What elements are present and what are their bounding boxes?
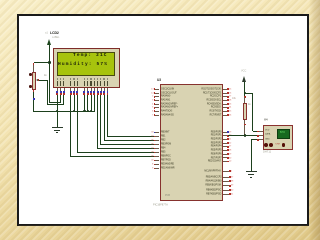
junction RW [73,110,75,112]
wire VCC down [243,82,246,97]
terminal LCD2 (input arrow) [47,39,51,45]
DHT11 sensor U4 body [263,125,293,150]
wire D0 to ground bus [83,95,86,111]
wire D5 vertical [99,95,102,145]
wire pot top stub [32,63,35,65]
LCD display LCD1 (LM016L) body [53,48,120,89]
wire to LCD VDD [49,101,61,104]
U3 pin 36 RB3/PGM [155,143,159,146]
wire up to LCD VDD pin [59,95,62,103]
LCD screen [57,52,115,76]
LCD1 pin VDD [60,78,61,79]
wire VCC to DHT VDD (h) [245,92,253,95]
junction VSS/ground bus [56,110,58,112]
U3 inner bottom label [165,195,170,197]
wire VCC to DHT VDD (v) [251,93,254,131]
wire LCD2 terminal down [48,45,51,63]
U3 pin 21 RD2/PSP2 [223,138,227,141]
wire wiper to VEE [47,103,64,106]
R1 bottom lead [243,120,246,136]
DHT11 pin VDD [259,130,263,133]
wire RW to ground bus [73,95,76,111]
wire D4 to U3 [97,147,154,150]
wire D1 to ground bus [86,95,89,111]
wire DATA U3 to DHT11 [228,134,257,137]
DHT11 reference U4 [264,119,268,122]
wire D6 vertical [103,95,106,141]
pot value 1k [44,75,47,77]
wire D3 to ground bus [93,95,96,111]
U3 pin 3 RA1/AN1 [155,99,159,102]
U3 pin 38 RB4/AN11/KBI0 [223,180,230,183]
LCD1 pin RS [70,78,71,79]
U3 pin 27 RD4/PSP4 [223,145,227,148]
ground bus wire [33,110,95,113]
U3 pin 25 RC6/TX/CK [223,110,227,113]
wire D5 to U3 [100,143,154,146]
wire D2 to ground bus [90,95,93,111]
pot wiper pin [38,79,40,81]
junction D0 [83,110,85,112]
wire D4 vertical [96,95,99,149]
junction R1/DATA [244,134,246,136]
microcontroller U3 body [160,84,223,202]
U3 pin 29 RD6/PSP6 [223,153,227,156]
U3 pin 8 RE0/AN5/RD [155,163,159,166]
pot RV1 up arrow button [29,73,32,76]
wire D7 to U3 [107,135,155,138]
ground (LCD VSS) [52,127,63,128]
wire E to U3 [77,151,155,154]
U3 pin 4 RA2/AN2/VREF- [155,103,159,106]
U3 pin 37 RB4 [155,147,159,150]
junction VCC/R1 [244,92,246,94]
U3 pin 2 RA0/AN0 [155,95,159,98]
wire wiper [38,79,47,82]
U3 pin 22 RD3/PSP3 [223,142,227,145]
U3 pin 24 RC5/SDO [223,106,227,109]
LCD1 pin E [77,78,78,79]
power label VCC [241,70,246,73]
U3 pin 10 RE2/CS/AN7 [223,160,227,163]
DHT11 part value [263,151,271,154]
U3 pin 35 RB2 [155,139,159,142]
LCD1 pin VSS [57,78,58,79]
U3 pin 13 OSC1/CLKIN [155,88,159,91]
pot RV1 bottom pin [33,90,35,92]
U3 pin 15 RC0/T1OSO/T1CKI [223,88,227,91]
junction D2 [90,110,92,112]
LCD1 pin D3 [94,78,95,79]
pot RV1 down arrow button [29,85,32,88]
DHT11 button adjust [282,143,285,146]
wire LCD2 vertical to VDD route [48,63,51,103]
wire to DHT VDD pin [253,130,258,133]
U3 pin 23 RC4/SDI/SDA [223,103,227,106]
junction LCD2/pot [48,61,50,63]
MCU reference U3 [157,79,161,82]
power terminal VCC [242,76,246,82]
LCD1 pin D0 [84,78,85,79]
DHT11 button minus [264,143,268,147]
U3 pin 28 RD5/PSP5 [223,149,227,152]
wire GND down [250,140,253,172]
DHT11 pin GND [259,138,263,141]
DHT11 pin DATA [259,134,263,137]
LCD1 pin D6 [103,78,104,79]
U3 pin 38 RB5 [155,151,159,154]
U3 part value [153,204,168,207]
DHT11 pin label DATA [265,133,270,135]
DHT11 reading [280,132,285,134]
U3 pin 6 RA4/T0CKI [155,110,159,113]
wire VSS to ground [56,95,59,127]
junction D1 [87,110,89,112]
R1 ref text [248,104,251,106]
LCD1 pin D1 [87,78,88,79]
DHT11 small text [275,143,280,145]
terminal sublabel [52,37,59,39]
U3 pin 26 RC7/RX/DT [223,114,227,117]
LCD1 pin D7 [107,78,108,79]
U3 pin 16 RC1/T1OSI/CCP2 [223,92,227,95]
U3 pin 14 OSC2/CLKOUT [155,92,159,95]
DHT11 screen [277,129,291,139]
wire up to LCD VEE pin [62,95,65,105]
resistor R1 value [232,98,236,100]
wire pot bottom to ground bus [32,90,35,111]
wire to pot top [34,61,50,64]
U3 pin 34 RB1 [155,135,159,138]
U3 pin 19 RD0/PSP0 [223,131,227,134]
pot top lead [32,65,35,71]
pot RV1 top pin [33,63,35,65]
U3 pin 39 RB6/PGC [155,155,159,158]
wire DHT GND [251,138,257,141]
R1 top pin [244,96,246,98]
R1 top lead [243,97,246,103]
LCD text line 2 [58,62,108,67]
LCD1 pin D2 [90,78,91,79]
U3 pin 33 RB0/INT [155,131,159,134]
U3 pin 5 RA3/AN3/VREF+ [155,106,159,109]
DHT11 pin label GND [265,138,270,140]
U3 pin 18 RC3/SCK/SCL [223,99,227,102]
U3 pin 17 RC2/CCP1 [223,95,227,98]
U3 pin 9 RE1/AN6/WR [155,167,159,170]
U3 pin 30 RD7/PSP7 [223,156,227,159]
LCD1 pin D4 [97,78,98,79]
U3 pin 20 RD1/PSP1 [223,134,227,137]
ground (DHT11) [246,171,257,172]
U3 pin 39 RB5/KBI1/PGM [223,184,230,187]
wire wiper vertical [46,80,49,104]
R1 bottom pin [244,124,246,126]
resistor R1 body [243,103,247,120]
wire D7 vertical [106,95,109,137]
LCD1 pin D5 [100,78,101,79]
DHT11 pin label VDD [265,129,269,131]
wire D6 to U3 [104,139,155,142]
LCD1 pin RW [73,78,74,79]
wire E vertical [76,95,79,153]
U3 pin 40 RB6/KBI2/PGC [223,189,230,192]
U3 pin 37 RB3/AN9/CCP2 [223,176,230,179]
terminal name LCD2 [50,31,59,35]
LCD1 pin VEE [63,78,64,79]
U3 pin 40 RB7/PGD [155,159,159,162]
terminal label prefix [45,32,48,35]
LCD text line 1 [73,53,108,58]
U3 pin 1 MCLR/VPP/THV [223,170,230,173]
U3 pin 7 RA5/AN4/SS [155,114,159,117]
wire marker (blue) [33,98,35,100]
DHT11 button plus [269,143,273,147]
pot RV1 wiper arrow [36,79,38,81]
potentiometer RV1 body [32,72,36,90]
wire RS to U3 [70,155,154,158]
U3 pin 41 RB7/KBI3/PGD [223,193,230,196]
wire RS vertical [69,95,72,157]
